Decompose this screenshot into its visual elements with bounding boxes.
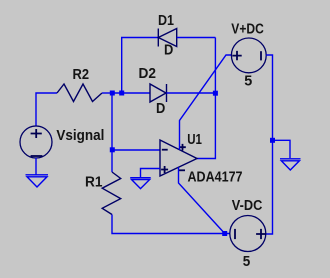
wire R1 bottom to V-DC node: [112, 215, 230, 234]
ground G2: [130, 178, 151, 189]
svg-text:5: 5: [243, 253, 251, 270]
svg-text:U1: U1: [187, 132, 202, 148]
voltage source Vsignal: [20, 126, 52, 158]
diode D1: [158, 29, 176, 47]
op-amp U1: [160, 140, 197, 176]
Vsignal plus mark: [31, 129, 42, 138]
svg-text:ADA4177: ADA4177: [188, 169, 243, 185]
wire op-amp V+ pin diagonal to V+DC: [180, 55, 232, 150]
op-amp inverting input marker: [162, 149, 168, 151]
Vsignal minus mark: [31, 155, 43, 157]
wire node down to R1: [111, 150, 113, 172]
svg-text:D: D: [164, 42, 173, 58]
op-amp V+ power marker: [179, 144, 186, 151]
node A junction square 2: [119, 91, 124, 96]
V-DC minus mark: [234, 229, 236, 239]
svg-text:V-DC: V-DC: [232, 198, 263, 214]
svg-text:D2: D2: [139, 66, 157, 82]
svg-text:Vsignal: Vsignal: [56, 127, 104, 144]
wire op-amp V- pin diagonal to V-DC node: [179, 167, 225, 233]
V+DC plus mark: [232, 51, 241, 60]
wire node A to D2: [112, 92, 150, 94]
wire output column vertical: [197, 38, 215, 159]
ground G1: [26, 175, 49, 187]
svg-text:D1: D1: [158, 13, 174, 29]
svg-text:V+DC: V+DC: [231, 21, 264, 37]
wire Vsignal bottom to ground G1: [35, 158, 37, 175]
wire Vsignal top to R2: [36, 93, 57, 126]
op-amp non-inverting input marker: [161, 166, 168, 173]
wire node A up to D1 line: [122, 38, 159, 94]
wire D1 to output node column: [177, 37, 216, 39]
wire right rail to ground G3: [273, 140, 291, 158]
wire R2 to node A: [102, 92, 112, 94]
op-amp V- power marker: [179, 169, 185, 171]
resistor R1: [102, 172, 121, 215]
V-DC plus mark: [256, 229, 266, 239]
svg-text:5: 5: [244, 72, 252, 89]
node A junction square 1: [110, 91, 115, 96]
wire node A down to op-amp input: [112, 93, 160, 150]
voltage source V+DC: [231, 38, 266, 73]
wire op-amp + input to ground G2: [141, 169, 161, 178]
svg-text:R1: R1: [85, 175, 103, 191]
resistor R2: [57, 84, 102, 102]
V+DC minus mark: [260, 51, 262, 60]
junction square at inverting input node: [110, 147, 115, 152]
voltage source V-DC: [230, 216, 266, 252]
svg-text:R2: R2: [73, 67, 90, 83]
wire V+DC right to right rail: [266, 55, 273, 234]
svg-text:D: D: [156, 101, 165, 117]
diode D2: [150, 84, 167, 102]
junction square right rail: [270, 138, 275, 143]
junction square at V-DC left node: [222, 231, 227, 236]
ground G3: [280, 159, 301, 170]
wire D2 to output node: [167, 92, 216, 94]
node B junction square: [213, 91, 218, 96]
